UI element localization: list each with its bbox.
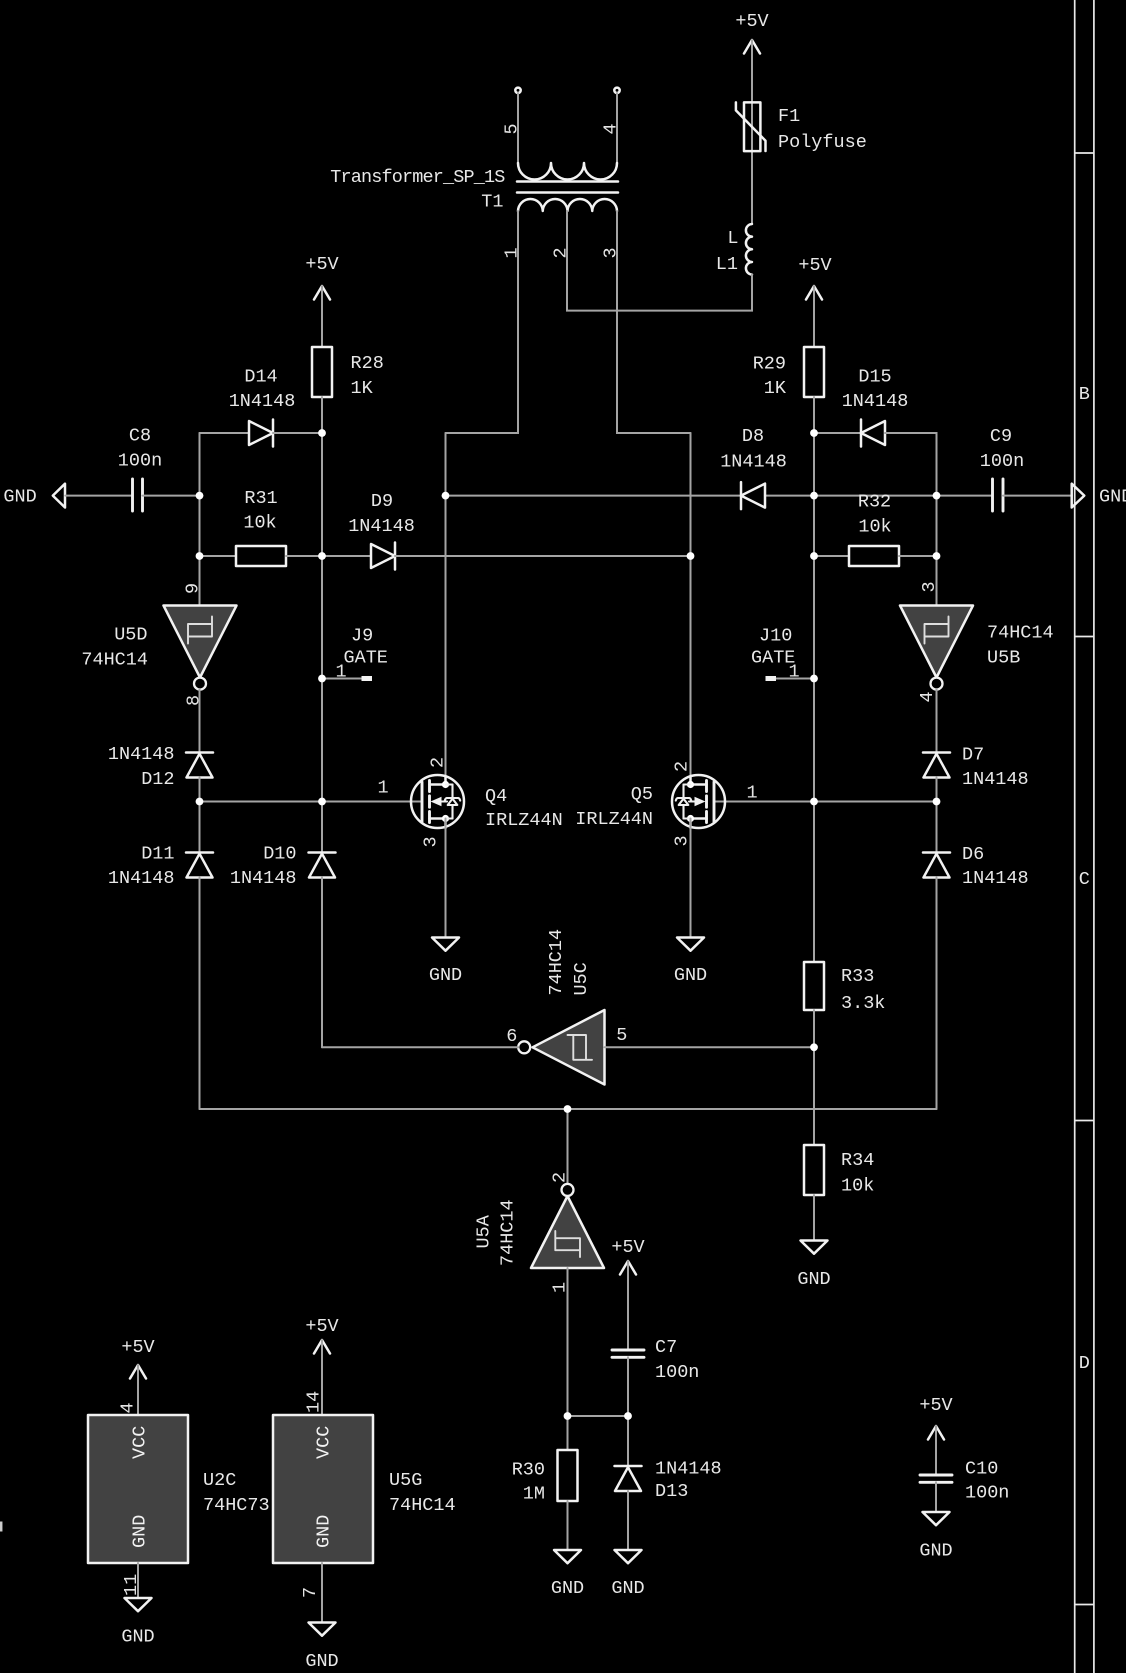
svg-text:VCC: VCC: [313, 1426, 334, 1459]
svg-text:R29: R29: [753, 354, 786, 375]
svg-text:J9: J9: [351, 626, 373, 647]
svg-text:1N4148: 1N4148: [348, 516, 415, 537]
wire bottom net row: [200, 1108, 937, 1110]
svg-text:Transformer_SP_1S: Transformer_SP_1S: [330, 167, 505, 188]
wire C8 node to D14: [200, 432, 250, 434]
label C10: [965, 1459, 1009, 1504]
svg-text:10k: 10k: [858, 517, 891, 538]
wire T1 pin2 to L1: [567, 211, 752, 311]
svg-text:1N4148: 1N4148: [108, 868, 175, 889]
wire C8 to node A: [143, 495, 200, 497]
svg-text:R33: R33: [841, 966, 874, 987]
label U5C: [546, 929, 592, 996]
svg-text:3: 3: [672, 835, 693, 846]
svg-text:C9: C9: [990, 426, 1012, 447]
U5B pin numbers: [917, 581, 940, 702]
label F1: [778, 106, 867, 153]
wire D11 to bottom row: [199, 878, 201, 1110]
svg-text:14: 14: [304, 1391, 325, 1413]
label C8: [118, 426, 162, 472]
svg-text:D15: D15: [858, 367, 891, 388]
wire C7 to node F: [627, 1357, 629, 1416]
svg-text:C7: C7: [655, 1337, 677, 1358]
junction R28 D14: [318, 429, 326, 437]
junction R29 D15: [810, 429, 818, 437]
svg-text:6: 6: [506, 1026, 517, 1047]
junction R33 U5C: [810, 1043, 818, 1051]
svg-text:GND: GND: [674, 965, 707, 986]
label R33: [841, 966, 885, 1014]
diode D12 1N4148: [186, 753, 213, 778]
svg-text:1: 1: [746, 783, 757, 804]
svg-text:GND: GND: [919, 1541, 952, 1562]
svg-text:8: 8: [184, 695, 205, 706]
svg-text:+5V: +5V: [735, 11, 768, 32]
junction J10: [810, 675, 818, 683]
svg-text:1: 1: [335, 662, 346, 683]
svg-text:1: 1: [788, 662, 799, 683]
wire U5A input: [567, 1268, 569, 1416]
svg-text:3: 3: [421, 836, 442, 847]
diode D7 1N4148: [923, 753, 950, 778]
svg-text:74HC73: 74HC73: [203, 1495, 270, 1516]
svg-text:9: 9: [183, 583, 204, 594]
junction D7 gate row: [933, 798, 941, 806]
junction D8 node: [810, 492, 818, 500]
capacitor C9 100n: [993, 479, 1004, 511]
svg-text:U5B: U5B: [987, 648, 1020, 669]
svg-text:R28: R28: [351, 353, 384, 374]
svg-text:1N4148: 1N4148: [655, 1459, 722, 1480]
svg-text:1N4148: 1N4148: [842, 391, 909, 412]
junction node A: [196, 492, 204, 500]
wire gate row left: [200, 801, 423, 803]
svg-text:D8: D8: [742, 426, 764, 447]
ground U2C: [121, 1598, 154, 1648]
port GND right: [1072, 484, 1126, 508]
wire GND port to C8: [65, 495, 132, 497]
svg-text:R34: R34: [841, 1150, 874, 1171]
svg-text:U5D: U5D: [114, 625, 147, 646]
wire node D to D8: [446, 495, 742, 497]
svg-text:3: 3: [919, 581, 940, 592]
transistor Q5 IRLZ44N: [672, 775, 725, 828]
diode D11 1N4148: [186, 853, 213, 878]
svg-text:GND: GND: [129, 1515, 150, 1548]
label Q4: [485, 786, 563, 831]
label C7: [655, 1337, 699, 1383]
svg-text:+5V: +5V: [305, 1316, 338, 1337]
svg-text:7: 7: [300, 1587, 321, 1598]
label J10: [751, 626, 800, 683]
diode D8 1N4148: [741, 482, 765, 509]
label R29: [753, 354, 787, 400]
svg-text:D6: D6: [962, 844, 984, 865]
svg-text:GND: GND: [611, 1578, 644, 1599]
svg-text:74HC14: 74HC14: [389, 1495, 456, 1516]
svg-text:2: 2: [672, 761, 693, 772]
svg-text:U2C: U2C: [203, 1470, 236, 1491]
svg-text:10k: 10k: [841, 1176, 874, 1197]
svg-text:VCC: VCC: [129, 1426, 150, 1459]
junction U5A out: [564, 1105, 572, 1113]
svg-text:74HC14: 74HC14: [81, 650, 148, 671]
wire node A column: [199, 433, 201, 606]
svg-text:1N4148: 1N4148: [962, 769, 1029, 790]
wire R29 col to R32: [814, 555, 849, 557]
transistor Q4 IRLZ44N: [411, 775, 464, 828]
resistor R34 10k: [804, 1145, 824, 1195]
svg-text:+5V: +5V: [611, 1237, 644, 1258]
U5A pin numbers: [550, 1172, 571, 1293]
wire node A to R31: [200, 555, 237, 557]
label L1: [716, 228, 739, 275]
label R32: [858, 492, 892, 538]
junction R28 R31: [318, 552, 326, 560]
label R31: [243, 488, 277, 534]
svg-text:F1: F1: [778, 106, 800, 127]
wire T1 pin1 to node D: [446, 211, 519, 433]
label U5B: [987, 623, 1054, 669]
wire U5C output: [322, 1046, 519, 1048]
U5G pin numbers: [300, 1391, 325, 1598]
sheet border left letter remnant: [0, 1522, 2, 1532]
junction J9: [318, 675, 326, 683]
ground C10: [919, 1512, 952, 1562]
wire U5C input: [605, 1046, 815, 1048]
label D12: [108, 744, 175, 790]
wire D13 to GND: [627, 1491, 629, 1550]
ground R34: [797, 1241, 830, 1291]
wire D10 to U5C out: [321, 878, 323, 1048]
wire T1 pin3 to node E: [617, 211, 691, 433]
svg-text:D13: D13: [655, 1481, 688, 1502]
svg-text:1K: 1K: [764, 378, 787, 399]
resistor R30 1M: [558, 1450, 578, 1501]
port GND left: [3, 484, 65, 508]
Q4 pin numbers: [377, 757, 448, 848]
wire +5V to C10: [935, 1426, 937, 1475]
power +5V top: [735, 11, 768, 54]
wire D9 to node E: [395, 555, 691, 557]
wire D7 to gate row: [936, 778, 938, 853]
wire Q4 source: [445, 819, 447, 938]
svg-text:4: 4: [917, 691, 938, 702]
junction R32 left: [810, 552, 818, 560]
wire +5V to R28: [321, 286, 323, 347]
svg-text:D11: D11: [141, 844, 174, 865]
wire R31 to R28 node: [286, 555, 322, 557]
svg-text:5: 5: [616, 1025, 627, 1046]
wire D6 to bottom row: [936, 878, 938, 1110]
power +5V C7: [611, 1237, 644, 1275]
label D7: [962, 745, 1029, 791]
label D14: [229, 367, 296, 413]
svg-text:C8: C8: [129, 426, 151, 447]
junction node F right: [624, 1412, 632, 1420]
junction node F left: [564, 1412, 572, 1420]
svg-text:U5A: U5A: [474, 1214, 495, 1248]
label D9: [348, 491, 415, 537]
inductor L1: [746, 224, 752, 275]
svg-text:Q5: Q5: [631, 784, 653, 805]
wire U5D out to D12: [199, 689, 201, 753]
svg-text:IRLZ44N: IRLZ44N: [485, 810, 563, 831]
ground U5G: [305, 1623, 338, 1673]
svg-text:5: 5: [502, 123, 523, 134]
U5D pin numbers: [183, 583, 205, 706]
wire node E column: [690, 433, 692, 776]
svg-text:1: 1: [502, 247, 523, 258]
svg-text:+5V: +5V: [121, 1337, 154, 1358]
wire D12 to gate row: [199, 778, 201, 853]
wire U5A output: [567, 1109, 569, 1184]
svg-text:R31: R31: [244, 488, 277, 509]
svg-text:GND: GND: [121, 1627, 154, 1648]
wire U5B out to D7: [936, 689, 938, 753]
wire node F to D13: [627, 1416, 629, 1466]
svg-text:1N4148: 1N4148: [720, 452, 787, 473]
label J9: [335, 626, 387, 683]
ground R30: [551, 1550, 584, 1599]
capacitor C7 100n: [612, 1350, 644, 1357]
U5C pin numbers: [506, 1025, 627, 1047]
wire D8 node to C9: [765, 495, 993, 497]
label Q5: [575, 784, 653, 830]
label R28: [351, 353, 384, 399]
svg-text:2: 2: [551, 247, 572, 258]
svg-text:74HC14: 74HC14: [546, 929, 567, 996]
wire Q5 source: [690, 819, 692, 938]
power +5V U2C: [121, 1337, 154, 1379]
ground Q4: [429, 938, 462, 987]
wire +5V to F1 to L1: [751, 40, 753, 224]
svg-text:1N4148: 1N4148: [962, 868, 1029, 889]
svg-text:T1: T1: [481, 192, 503, 213]
wire R32 to C9 column: [899, 555, 937, 557]
resistor R32 10k: [849, 546, 899, 566]
wire D14 to R28 node: [273, 432, 322, 434]
wire U5G pin14: [321, 1340, 323, 1415]
diode D14 1N4148: [249, 420, 273, 447]
wire R28 node to D9: [322, 555, 371, 557]
svg-text:GND: GND: [429, 965, 462, 986]
svg-text:74HC14: 74HC14: [498, 1199, 519, 1266]
op-amp U5D 74HC14 inverter: [164, 606, 237, 690]
label D11: [108, 844, 175, 890]
ground Q5: [674, 938, 707, 987]
power +5V U5G: [305, 1316, 338, 1354]
svg-text:L: L: [727, 228, 738, 249]
junction D12 gate row: [196, 798, 204, 806]
svg-text:74HC14: 74HC14: [987, 623, 1054, 644]
svg-text:J10: J10: [759, 626, 792, 647]
svg-text:D9: D9: [371, 491, 393, 512]
sheet border right: [1075, 0, 1094, 1673]
svg-text:+5V: +5V: [305, 254, 338, 275]
label R30: [512, 1460, 545, 1505]
svg-text:L1: L1: [716, 254, 738, 275]
svg-text:1N4148: 1N4148: [108, 744, 175, 765]
label D10: [230, 844, 297, 890]
U2C pin numbers: [118, 1402, 143, 1596]
wire C9 to GND port: [1003, 495, 1072, 497]
diode D15 1N4148: [861, 420, 885, 447]
wire gate row right: [715, 801, 937, 803]
junction Q5 gate row: [810, 798, 818, 806]
svg-text:GATE: GATE: [344, 648, 388, 669]
fuse F1 Polyfuse: [736, 102, 766, 151]
svg-text:R32: R32: [858, 492, 891, 513]
label U5A: [474, 1199, 519, 1266]
power +5V R29: [798, 255, 831, 300]
label C9: [980, 426, 1024, 472]
op-amp U5B 74HC14 inverter: [900, 606, 973, 690]
wire C10 to GND: [935, 1482, 937, 1512]
svg-text:D12: D12: [141, 769, 174, 790]
wire R29 column: [813, 397, 815, 962]
svg-text:GND: GND: [797, 1269, 830, 1290]
svg-text:1M: 1M: [523, 1484, 545, 1505]
svg-text:2: 2: [428, 757, 449, 768]
wire R30 to GND: [567, 1501, 569, 1550]
op-amp U2C 74HC73 power unit: [88, 1415, 188, 1563]
wire U2C pin11: [137, 1563, 139, 1598]
diode D13 1N4148: [615, 1466, 642, 1491]
svg-text:D: D: [1079, 1353, 1090, 1374]
resistor R31 10k: [236, 546, 286, 566]
svg-text:100n: 100n: [655, 1362, 699, 1383]
resistor R29 1K: [804, 347, 824, 397]
label D8: [720, 426, 787, 473]
resistor R28 1K: [312, 347, 332, 397]
svg-text:C10: C10: [965, 1459, 998, 1480]
svg-text:2: 2: [550, 1172, 571, 1183]
svg-text:IRLZ44N: IRLZ44N: [575, 809, 653, 830]
wire node F to R30: [567, 1416, 569, 1450]
wire node F row: [568, 1415, 629, 1417]
op-amp U5G 74HC14 power unit: [273, 1415, 373, 1563]
diode D9 1N4148: [371, 543, 395, 570]
power +5V C10: [919, 1395, 952, 1440]
capacitor C10 100n: [920, 1475, 952, 1482]
label U5D: [81, 625, 148, 671]
svg-text:4: 4: [601, 123, 622, 134]
Q5 pin numbers: [672, 761, 758, 847]
svg-text:3.3k: 3.3k: [841, 993, 885, 1014]
junction node D: [442, 492, 450, 500]
svg-text:U5C: U5C: [571, 962, 592, 995]
wire +5V to R29: [813, 286, 815, 347]
label T1: [330, 167, 505, 213]
connector J10 GATE: [766, 678, 815, 680]
svg-text:100n: 100n: [965, 1483, 1009, 1504]
label R34: [841, 1150, 874, 1197]
label D13: [655, 1459, 722, 1503]
wire R33 to R34: [813, 1010, 815, 1145]
svg-text:1K: 1K: [351, 378, 374, 399]
svg-text:U5G: U5G: [389, 1470, 422, 1491]
svg-text:1N4148: 1N4148: [230, 868, 297, 889]
label D15: [842, 367, 909, 413]
svg-text:100n: 100n: [118, 451, 162, 472]
junction D10 gate row: [318, 798, 326, 806]
svg-text:GND: GND: [1099, 487, 1126, 508]
op-amp U5A 74HC14 inverter: [531, 1184, 604, 1268]
junction node A R31: [196, 552, 204, 560]
svg-text:GND: GND: [3, 487, 36, 508]
junction C9 node: [933, 492, 941, 500]
svg-text:B: B: [1079, 384, 1090, 405]
svg-text:GND: GND: [305, 1651, 338, 1672]
capacitor C8 100n: [133, 479, 143, 511]
svg-text:10k: 10k: [243, 513, 276, 534]
svg-text:4: 4: [118, 1402, 139, 1413]
svg-text:GND: GND: [313, 1515, 334, 1548]
T1 pin numbers: [502, 123, 622, 258]
svg-text:Q4: Q4: [485, 786, 507, 807]
svg-text:GND: GND: [551, 1578, 584, 1599]
label D6: [962, 844, 1029, 889]
svg-text:1N4148: 1N4148: [229, 391, 296, 412]
svg-text:+5V: +5V: [919, 1395, 952, 1416]
junction R32 right: [933, 552, 941, 560]
svg-text:C: C: [1079, 869, 1090, 890]
power +5V R28: [305, 254, 338, 300]
connector J9 GATE: [322, 678, 372, 680]
wire +5V to C7: [627, 1261, 629, 1350]
ground D13: [611, 1550, 644, 1599]
transformer T1: [515, 88, 619, 211]
svg-text:100n: 100n: [980, 451, 1024, 472]
svg-text:+5V: +5V: [798, 255, 831, 276]
diode D6 1N4148: [923, 853, 950, 878]
wire node D column: [445, 433, 447, 776]
svg-text:R30: R30: [512, 1460, 545, 1481]
svg-text:D14: D14: [244, 367, 277, 388]
op-amp U5C 74HC14 inverter: [518, 1010, 604, 1085]
junction node E: [687, 552, 695, 560]
wire R28 column: [321, 397, 323, 853]
wire pin9 U5D: [199, 556, 201, 606]
diode D10 1N4148: [309, 853, 336, 878]
wire U2C pin4: [137, 1365, 139, 1415]
svg-text:3: 3: [601, 247, 622, 258]
svg-text:1: 1: [377, 778, 388, 799]
wire R29 node to D15: [814, 432, 861, 434]
svg-text:Polyfuse: Polyfuse: [778, 132, 867, 153]
svg-text:D10: D10: [263, 844, 296, 865]
label U2C: [203, 1470, 270, 1516]
wire D15 to C9 column: [885, 433, 937, 606]
svg-text:D7: D7: [962, 745, 984, 766]
label U5G: [389, 1470, 456, 1516]
wire R34 to GND: [813, 1195, 815, 1241]
wire U5G pin7: [321, 1563, 323, 1623]
resistor R33 3.3k: [804, 962, 824, 1010]
